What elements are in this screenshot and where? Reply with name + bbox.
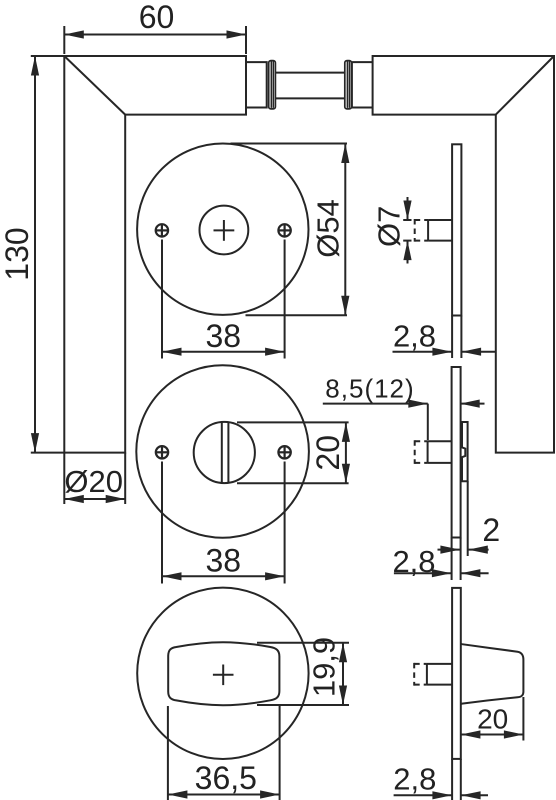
rosette 2 fixing pin (side) [415,440,452,464]
dimension 2,8 (rosette 2 thickness) [392,538,488,581]
svg-text:Ø7: Ø7 [372,206,407,247]
svg-text:Ø54: Ø54 [311,199,346,258]
dimension diameter 7 (pin) [372,197,408,264]
right collar ring [345,61,352,109]
rosette 2 left screw [156,446,169,459]
rosette 2 right screw [278,446,291,459]
dimension 2 (clip strip thickness) [438,481,501,556]
rosette 1 inner circle [200,206,249,255]
svg-text:20: 20 [310,435,346,471]
svg-text:38: 38 [206,318,242,354]
rosette 1 fixing pin (side) [403,219,452,242]
rosette 3 thumbturn knob (side) [461,644,524,704]
dimension 2,8 (rosette 3 thickness) [393,759,488,800]
rosette 2 outer circle [136,365,309,538]
rosette 3 outer circle [137,588,308,759]
rosette 3 thumbturn knob (front) [168,642,279,705]
rosette 3 fixing pin (side) [414,663,452,686]
dimension diameter 54 (rosette 1) [231,144,348,316]
svg-text:Ø20: Ø20 [64,464,123,499]
svg-text:38: 38 [206,543,242,579]
svg-text:2: 2 [482,512,500,548]
svg-text:8,5(12): 8,5(12) [325,374,414,404]
dimension 130 (handle height, left) [0,56,64,453]
svg-text:130: 130 [0,227,35,280]
svg-text:2,8: 2,8 [392,544,435,579]
svg-text:36,5: 36,5 [195,760,257,796]
rosette 1 right screw [278,224,291,237]
dimension 38 (rosette 1 screw distance) [162,240,285,359]
dimension 20 (thumbturn hole) [237,422,349,483]
dimension 8,5(12) (pin projection) [323,374,485,441]
rosette 1 center cross [214,220,235,241]
rosette 2 thumbturn hole circle [194,422,255,483]
dimension 19,9 (thumbturn height) [257,637,349,705]
right handle outline (top view) [373,56,554,453]
rosette 3 center cross [213,665,234,686]
svg-text:19,9: 19,9 [307,637,342,697]
right handle neck [352,62,373,107]
rosette 1 left screw [155,224,168,237]
dimension 38 (rosette 2 screw distance) [162,462,285,584]
dimension 20 (knob depth) [461,697,524,741]
dimension diameter 20 (lever bar) [64,453,125,504]
rosette 3 side plate [452,588,461,759]
spindle (top view) [276,73,345,99]
dimension 60 (grip length, top) [64,0,246,54]
rosette 2 slot lines [222,422,229,482]
left collar ring [269,61,276,109]
left handle outline (top view) [64,56,246,453]
svg-text:2,8: 2,8 [393,762,436,797]
rosette 1 side plate [452,144,461,315]
left handle neck [246,62,267,107]
rosette 2 clip strip (side) [462,422,468,481]
svg-text:20: 20 [477,704,508,735]
rosette 1 outer circle [137,144,308,315]
rosette 2 side plate [452,367,461,538]
svg-text:2,8: 2,8 [393,319,436,354]
dimension 2,8 (rosette 1 thickness) [393,316,496,359]
svg-text:60: 60 [139,0,175,35]
dimension 36,5 (thumbturn width) [168,706,280,800]
